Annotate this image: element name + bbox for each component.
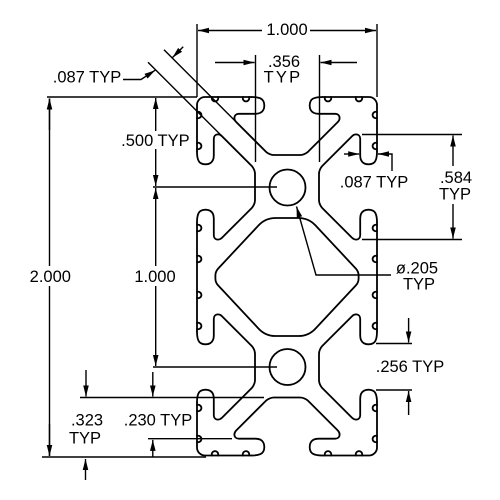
extension line top face left [47,96,197,98]
left T-slot upper [197,134,255,239]
dim .323 arrow bottom [85,459,87,480]
left T-slot lower [197,314,255,419]
right T-slot upper [319,134,377,239]
center bore hole lower [270,349,306,385]
extension line bottom face left [42,456,206,458]
svg-text:.230 TYP: .230 TYP [124,412,193,430]
web face reference line lower for dim .087 top-left [148,62,252,166]
dim .356 arrow right [321,62,358,64]
dim 2.000 arrow bottom [49,424,51,456]
dim .356 arrow left [215,62,255,64]
extension line right slot floor for dim .356 [319,55,321,162]
svg-text:.256 TYP: .256 TYP [376,358,445,376]
dim .087 right arrow left [344,153,359,155]
svg-text:.087 TYP: .087 TYP [53,69,122,87]
extension line bottom slot lip underside for dim .230 [148,438,232,440]
svg-text:TYP: TYP [403,276,435,294]
dim .500 arrow top [155,98,157,131]
extension line bottom slot floor for dim .323 [80,397,264,399]
outer face: middle-left block [196,223,198,332]
svg-text:2.000: 2.000 [30,268,71,286]
dim 2.000 line upper part [49,99,51,267]
central octagonal cavity [215,218,358,336]
svg-text:TYP: TYP [264,69,303,87]
dim .087 top-left leader and arrow lower [123,70,155,79]
dim .087 top-left arrow upper [172,47,183,58]
center bore hole upper [270,170,306,206]
dim .230 arrow bottom [152,440,154,457]
right T-slot lower [319,314,377,419]
outer face: bottom-right corner block [323,403,378,456]
svg-text:.500 TYP: .500 TYP [121,132,190,150]
center line hole 2 [153,366,277,368]
face notch grooves [197,97,377,456]
extension line right slot cavity bottom for dim .584 [362,239,462,241]
svg-text:.323: .323 [71,412,103,430]
center line hole 1 [153,186,277,188]
dim .323 arrow top [85,370,87,397]
dim .256 arrow upper [408,318,410,343]
dim 1.000 top arrow left [198,30,262,32]
dim .584 arrow top [452,136,454,167]
svg-text:.087 TYP: .087 TYP [340,174,409,192]
dim 1.000 left arrow bottom [155,286,157,366]
top T-slot [234,97,339,155]
outer face: top-right corner block [323,97,378,152]
bottom T-slot [234,398,339,456]
extension line right slot cavity top for dim .584 [362,134,462,136]
svg-text:1.000: 1.000 [266,21,307,39]
outer face: top-left corner block [197,97,252,152]
svg-text:.584: .584 [440,169,472,187]
extension line right lower slot lip tip lower for dim .256 [376,389,412,391]
leader line for hole diameter .205 [297,207,392,276]
outer face: middle-right block [376,223,378,332]
extension line right lower slot lip tip upper for dim .256 [376,343,412,345]
dim 1.000 top arrow right [310,30,376,32]
dim 1.000 left arrow top [155,188,157,266]
extension line profile right edge for dim 1.000 top [376,24,378,97]
extension line profile left edge for dim 1.000 top [196,24,198,97]
outer face: bottom-left corner block [197,403,252,456]
dim .087 right arrow right with leader [378,154,392,171]
dim .500 arrow bottom [155,149,157,186]
web face reference line upper for dim .087 top-left [164,50,266,152]
svg-text:TYP: TYP [69,430,101,448]
extension line left slot floor for dim .356 [255,55,257,162]
svg-text:TYP: TYP [439,186,471,204]
dim .584 arrow bottom [452,204,454,239]
dim 2.000 line lower part [49,286,51,456]
dim .256 arrow lower [408,391,410,415]
dim 2.000 arrow top [49,99,51,131]
dim .230 arrow top [152,372,154,397]
svg-text:1.000: 1.000 [134,268,175,286]
